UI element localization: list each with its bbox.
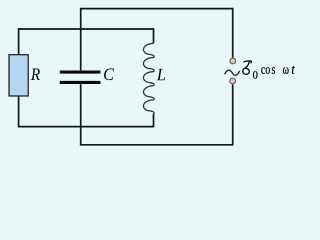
source label: italic t: [292, 66, 295, 74]
inductor L label: [157, 69, 166, 80]
wire: R branch top (bus to resistor): [18, 28, 20, 54]
wire: L branch bottom (coil to bus): [153, 114, 155, 128]
source label: script-E (EMF) glyph: [243, 61, 252, 74]
wire: C branch bottom (capacitor down through bus to bottom line): [80, 84, 82, 145]
inductor L (coil, 5 turns): [143, 43, 154, 114]
wire: R branch bottom (resistor to bus): [18, 96, 20, 127]
wire: upper bus (R top to L top): [19, 28, 154, 30]
wire: source branch top vertical: [232, 8, 234, 58]
source label: letter o of cos: [266, 67, 270, 74]
resistor R label: [31, 69, 40, 80]
wire: L branch top (bus to coil): [153, 28, 155, 43]
source label: letter s of cos: [272, 67, 275, 74]
source tilde (AC symbol): [225, 70, 240, 75]
resistor R (body): [9, 55, 28, 96]
wire: top outer horizontal (C-branch top to source top): [81, 8, 233, 10]
wire: lower bus (R bottom to L bottom): [19, 126, 154, 128]
capacitor C top plate: [60, 71, 101, 74]
source terminal (bottom circle): [230, 78, 236, 84]
source label: letter c of cos: [261, 67, 265, 74]
source label: omega: [283, 67, 289, 74]
source terminal (top circle): [230, 58, 236, 64]
capacitor C label: [104, 68, 114, 80]
wire: C branch top (top line down to capacitor): [80, 8, 82, 71]
capacitor C bottom plate: [60, 81, 101, 84]
wire: bottom outer horizontal (C-branch bottom to source bottom): [81, 144, 233, 146]
wire: source branch bottom vertical: [232, 85, 234, 146]
source label: subscript 0: [253, 71, 258, 79]
